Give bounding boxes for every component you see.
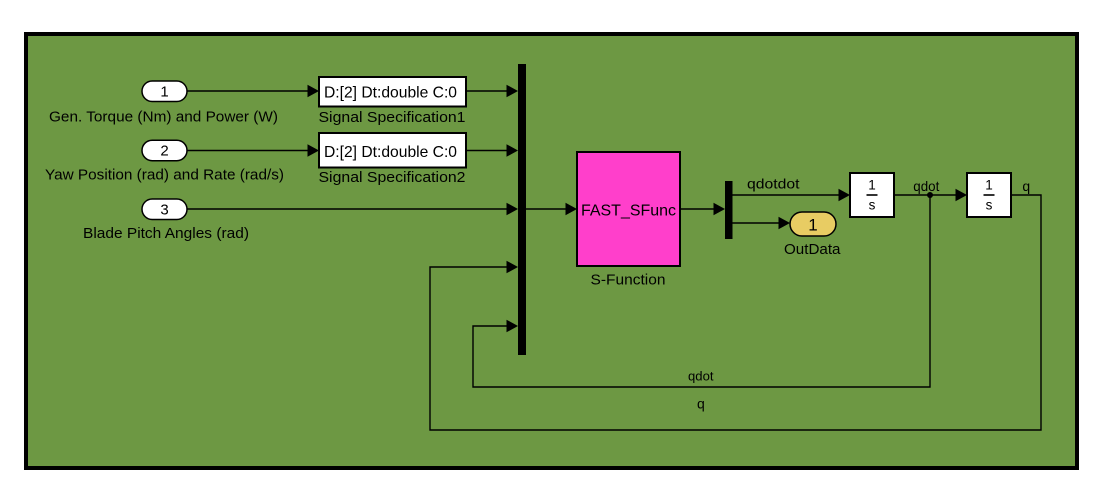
arrowhead into mux port5 [507, 320, 519, 333]
wire [466, 150, 509, 152]
svg-text:Signal Specification2: Signal Specification2 [319, 169, 466, 186]
wire [187, 208, 509, 210]
arrowhead into Integrator2 [956, 189, 968, 202]
demux bar [725, 181, 733, 239]
Signal Specification2 block [319, 133, 466, 168]
input port 3 oval [142, 199, 187, 220]
svg-text:s: s [986, 198, 993, 213]
arrowhead into Integrator1 [839, 189, 851, 202]
S-Function block FAST_SFunc [577, 152, 680, 266]
svg-text:qdotdot: qdotdot [747, 176, 800, 192]
svg-text:q: q [1022, 178, 1030, 194]
wire qdot feedback [473, 195, 930, 387]
Integrator1 block [850, 173, 894, 217]
svg-text:Yaw Position (rad) and Rate (r: Yaw Position (rad) and Rate (rad/s) [45, 166, 284, 183]
svg-text:q: q [697, 396, 705, 412]
arrowhead into S-Function [566, 203, 578, 216]
arrowhead into Signal Specification2 [308, 144, 320, 157]
svg-text:D:[2] Dt:double C:0: D:[2] Dt:double C:0 [324, 85, 457, 102]
arrowhead into demux [714, 203, 726, 216]
svg-text:FAST_SFunc: FAST_SFunc [581, 203, 676, 220]
arrowhead into mux port3 [507, 203, 519, 216]
wire [187, 90, 310, 92]
arrowhead into Signal Specification1 [308, 85, 320, 98]
arrowhead into OutData [779, 217, 791, 230]
svg-text:qdot: qdot [913, 178, 939, 194]
svg-text:3: 3 [160, 202, 168, 219]
wire S-Function output [680, 208, 716, 210]
wire qdotdot [732, 194, 841, 196]
svg-text:qdot: qdot [688, 369, 714, 384]
wire [466, 90, 509, 92]
svg-text:OutData: OutData [784, 241, 841, 258]
input port 1 oval [142, 81, 187, 102]
input port 2 oval [142, 140, 187, 161]
svg-text:Signal Specification1: Signal Specification1 [319, 109, 466, 126]
Signal Specification1 block [319, 77, 466, 107]
svg-text:1: 1 [868, 178, 876, 193]
arrowhead into mux port2 [507, 144, 519, 157]
wire qdot [894, 194, 958, 196]
wire mux output [526, 208, 568, 210]
Integrator2 block [967, 173, 1011, 217]
wire to OutData [732, 222, 781, 224]
svg-text:s: s [869, 198, 876, 213]
svg-text:1: 1 [985, 178, 993, 193]
OutData oval [790, 212, 836, 236]
junction qdot node [927, 192, 933, 198]
svg-text:2: 2 [160, 143, 168, 160]
mux bar [518, 64, 526, 355]
svg-text:Gen. Torque (Nm) and Power (W): Gen. Torque (Nm) and Power (W) [49, 109, 278, 126]
arrowhead into mux port1 [507, 85, 519, 98]
svg-text:Blade Pitch Angles (rad): Blade Pitch Angles (rad) [83, 225, 249, 242]
svg-text:S-Function: S-Function [591, 272, 666, 289]
svg-text:1: 1 [160, 84, 168, 101]
svg-text:D:[2] Dt:double C:0: D:[2] Dt:double C:0 [324, 144, 457, 161]
arrowhead into mux port4 [507, 261, 519, 274]
svg-text:1: 1 [808, 216, 817, 235]
wire q feedback [430, 195, 1041, 430]
wire [187, 150, 310, 152]
